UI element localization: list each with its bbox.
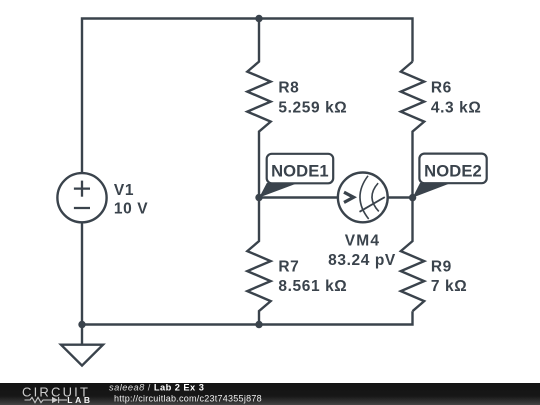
svg-text:83.24 pV: 83.24 pV bbox=[328, 252, 396, 269]
svg-text:10 V: 10 V bbox=[114, 200, 148, 217]
svg-text:R7: R7 bbox=[278, 259, 299, 276]
svg-text:4.3 kΩ: 4.3 kΩ bbox=[431, 99, 482, 116]
svg-text:7 kΩ: 7 kΩ bbox=[431, 278, 467, 295]
svg-text:saleea8 / Lab 2 Ex 3: saleea8 / Lab 2 Ex 3 bbox=[109, 382, 204, 392]
svg-text:NODE2: NODE2 bbox=[424, 162, 482, 181]
svg-text:8.561 kΩ: 8.561 kΩ bbox=[278, 278, 347, 295]
svg-text:5.259 kΩ: 5.259 kΩ bbox=[278, 99, 347, 116]
svg-text:R9: R9 bbox=[431, 259, 452, 276]
svg-text:NODE1: NODE1 bbox=[271, 162, 329, 181]
svg-text:R6: R6 bbox=[431, 79, 452, 96]
svg-text:V1: V1 bbox=[114, 182, 134, 199]
svg-text:VM4: VM4 bbox=[345, 233, 380, 250]
svg-text:R8: R8 bbox=[278, 79, 299, 96]
svg-text:LAB: LAB bbox=[67, 395, 92, 405]
svg-text:http://circuitlab.com/c23t7435: http://circuitlab.com/c23t74355j878 bbox=[114, 393, 262, 403]
